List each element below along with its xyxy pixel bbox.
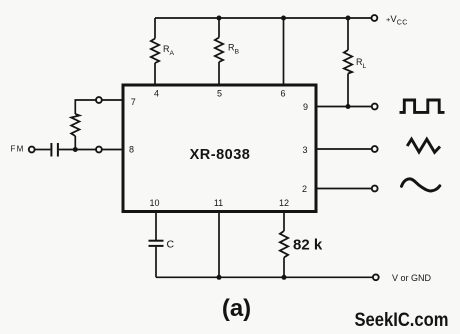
terminal pin 7 open circle bbox=[96, 97, 102, 103]
svg-text:FM: FM bbox=[11, 145, 25, 154]
wire to pin 8 bbox=[102, 149, 123, 151]
junction dot node A bbox=[73, 147, 78, 152]
wire capacitor C to bottom rail bbox=[155, 247, 157, 277]
svg-text:82 k: 82 k bbox=[293, 237, 323, 254]
wire top +Vcc rail bbox=[155, 17, 372, 19]
terminal pin 3 bbox=[372, 146, 378, 152]
svg-text:6: 6 bbox=[280, 89, 285, 99]
wire pin 5 lower stub bbox=[218, 62, 220, 85]
wire pin 6 to rail bbox=[283, 18, 285, 85]
junction dot pin11/bottom rail bbox=[217, 275, 222, 280]
resistor 82k bbox=[280, 231, 288, 258]
terminal pin 2 bbox=[372, 186, 378, 192]
svg-text:(a): (a) bbox=[222, 295, 251, 322]
svg-text:5: 5 bbox=[217, 89, 222, 99]
svg-text:XR-8038: XR-8038 bbox=[190, 147, 251, 163]
svg-text:9: 9 bbox=[303, 102, 308, 112]
svg-text:10: 10 bbox=[149, 198, 159, 208]
wire pin 4 upper stub bbox=[154, 18, 156, 39]
wire node A up to resistor bbox=[74, 136, 76, 150]
resistor RA bbox=[151, 39, 159, 64]
svg-text:8: 8 bbox=[129, 145, 134, 155]
junction dot RL/rail bbox=[346, 16, 351, 21]
resistor RL bbox=[344, 50, 352, 74]
resistor R2 (FM bias) bbox=[71, 114, 79, 136]
svg-text:11: 11 bbox=[214, 198, 223, 208]
wire pin 11 down bbox=[218, 211, 220, 277]
wire bottom rail bbox=[156, 276, 372, 278]
svg-text:V or GND: V or GND bbox=[392, 273, 432, 283]
sine wave symbol bbox=[402, 179, 440, 191]
wire pin 10 down bbox=[155, 211, 157, 240]
svg-text:+VCC: +VCC bbox=[386, 14, 408, 27]
resistor RB bbox=[215, 38, 223, 63]
svg-text:4: 4 bbox=[154, 89, 159, 99]
wire pin 2 output bbox=[316, 188, 372, 190]
capacitor C top plate bbox=[149, 240, 164, 242]
wire RL upper stub bbox=[347, 18, 349, 50]
capacitor C bottom plate bbox=[149, 245, 164, 247]
terminal pin 9 bbox=[372, 104, 378, 110]
svg-text:RL: RL bbox=[356, 57, 367, 70]
IC U1 XR-8038 body bbox=[123, 85, 316, 212]
square wave symbol bbox=[400, 100, 445, 112]
terminal pin 8 open circle bbox=[96, 147, 102, 153]
terminal V or GND bbox=[373, 274, 379, 280]
svg-text:RA: RA bbox=[163, 44, 175, 57]
triangle wave symbol bbox=[407, 139, 440, 152]
terminal +Vcc bbox=[372, 15, 378, 21]
junction dot pin6/rail bbox=[281, 16, 286, 21]
wire resistor to pin7 horizontal bbox=[75, 100, 96, 114]
wire pin 9 output bbox=[316, 106, 372, 108]
capacitor C2 input (left plate) bbox=[50, 143, 52, 157]
capacitor C2 input (right plate) bbox=[57, 143, 59, 157]
svg-text:3: 3 bbox=[302, 145, 307, 155]
junction dot RL/pin9 wire bbox=[346, 104, 351, 109]
svg-text:C: C bbox=[167, 239, 175, 251]
junction dot pin5/rail bbox=[217, 16, 222, 21]
svg-text:RB: RB bbox=[228, 43, 240, 56]
wire FM to capacitor bbox=[35, 149, 51, 151]
terminal FM input bbox=[29, 147, 35, 153]
wire RL lower stub bbox=[347, 74, 349, 107]
junction dot pin12/bottom rail bbox=[282, 275, 287, 280]
wire pin 3 output bbox=[316, 148, 372, 150]
svg-text:2: 2 bbox=[302, 184, 307, 194]
svg-text:SeekIC.com: SeekIC.com bbox=[355, 309, 449, 331]
svg-text:7: 7 bbox=[131, 97, 136, 107]
wire capacitor to node A bbox=[59, 149, 96, 151]
wire 82k to bottom rail bbox=[283, 258, 285, 278]
wire pin 5 upper stub bbox=[218, 18, 220, 38]
wire pin 4 lower stub bbox=[154, 63, 156, 85]
svg-text:12: 12 bbox=[279, 198, 289, 208]
wire pin 12 upper stub bbox=[283, 211, 285, 231]
wire to pin 7 bbox=[102, 99, 123, 101]
